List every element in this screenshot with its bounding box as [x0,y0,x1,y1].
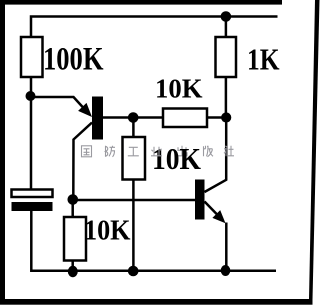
svg-text:10K: 10K [84,214,131,246]
svg-text:100K: 100K [43,41,104,77]
svg-text:10K: 10K [155,74,203,104]
svg-text:10K: 10K [152,141,201,176]
svg-text:1K: 1K [247,42,280,77]
